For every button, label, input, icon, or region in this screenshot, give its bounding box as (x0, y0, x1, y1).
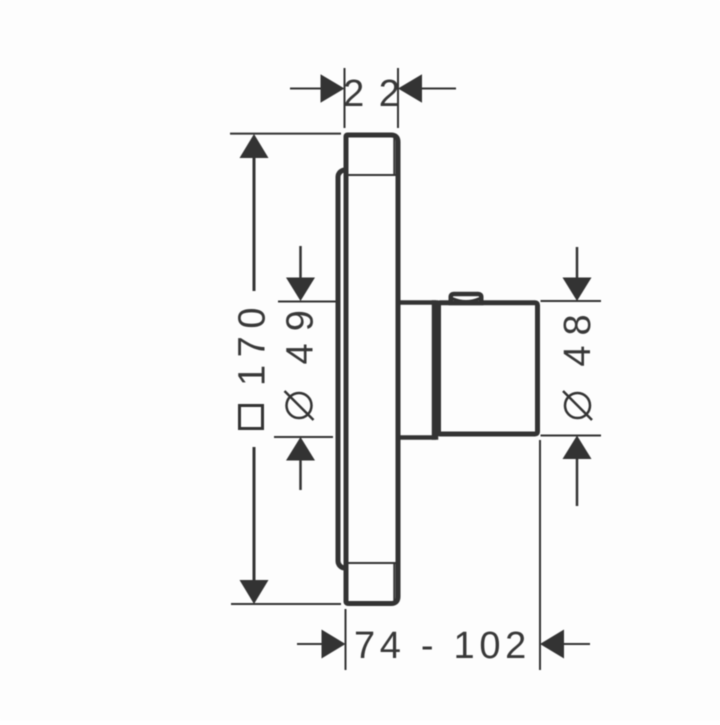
adapter ring edge (432, 300, 439, 439)
square symbol (240, 406, 263, 429)
svg-text:49: 49 (280, 298, 322, 364)
dim 74-102: right arrow (540, 630, 564, 659)
dim 74-102: right extension line (539, 440, 541, 670)
dim D48: diameter circle (565, 393, 590, 418)
dim D49: lower line (299, 459, 302, 490)
valve neck top line (401, 300, 437, 305)
front plate (square escutcheon, side view) (346, 135, 398, 604)
dim D48: bottom arrow (up) (563, 436, 592, 460)
dim 74-102: left leader (297, 643, 323, 645)
dim 170: top arrow (240, 134, 269, 158)
svg-text:48: 48 (557, 304, 599, 366)
dim 170: bottom extension line (231, 603, 341, 605)
dim 22: left arrow (321, 74, 345, 103)
plate inner edge line top (349, 174, 396, 176)
dim 22: right leader (420, 88, 456, 90)
dim 22: right extension line (397, 68, 399, 128)
dim D49: bottom arrow (up) (286, 437, 315, 461)
dim D49: upper line (299, 246, 302, 279)
dim D49: top extension line (278, 301, 336, 303)
dim 74-102: left arrow (322, 630, 346, 659)
dim 22: right arrow (398, 74, 422, 103)
dim 170: lower dimension line (253, 447, 256, 583)
valve neck bottom line (401, 435, 437, 440)
svg-text:2 2: 2 2 (343, 73, 402, 115)
dim D49: diameter slash (285, 391, 314, 420)
svg-text:170: 170 (232, 300, 274, 386)
dim 170: upper dimension line (253, 155, 256, 291)
plate inner edge vertical bottom (393, 563, 395, 601)
dim D49: bottom extension line (274, 436, 333, 438)
dim D48: top extension line (541, 300, 602, 302)
dim D49: diameter circle (287, 393, 312, 418)
safety stop button on knob (451, 294, 482, 303)
dim D49: top arrow (down) (286, 278, 315, 302)
back plate (thin escutcheon behind, left edge visible) (338, 170, 368, 568)
plate inner edge vertical top (393, 137, 395, 175)
plate inner edge line bottom (349, 562, 396, 564)
dim D48: upper line (576, 247, 579, 279)
dim 22: left extension line (344, 68, 346, 128)
svg-text:74 - 102: 74 - 102 (354, 625, 531, 667)
dim 170: bottom arrow (240, 580, 269, 604)
dim D48: top arrow (down) (563, 278, 592, 302)
dim D48: bottom extension line (541, 435, 602, 437)
dim 74-102: right leader (562, 643, 590, 645)
knob body (439, 303, 538, 434)
dim 74-102: left extension line (345, 609, 347, 670)
dim D48: diameter slash (563, 391, 592, 420)
dim 22: left leader (290, 88, 323, 90)
dim D48: lower line (576, 458, 579, 506)
button seam arc (453, 299, 480, 302)
dim 170: top extension line (230, 133, 341, 135)
